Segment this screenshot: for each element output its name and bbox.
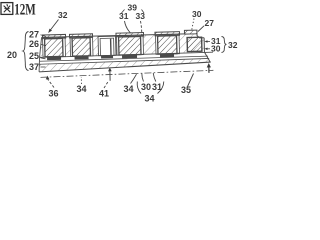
electrode box B4 (31/33) xyxy=(119,36,141,55)
leader 31 top xyxy=(125,21,131,33)
leader 30 bottom xyxy=(142,73,144,81)
slab left broken edge xyxy=(39,37,42,57)
leader 37 left xyxy=(41,66,46,68)
svg-text:32: 32 xyxy=(58,10,68,20)
slab top outline xyxy=(42,34,186,38)
leader 27 right xyxy=(198,26,204,32)
empty trench U3 inner liner xyxy=(100,38,114,56)
contact foot under B5 xyxy=(160,54,174,58)
trench cup liner under B1 xyxy=(43,37,66,57)
arrow right shaft xyxy=(208,65,210,73)
svg-text:37: 37 xyxy=(29,62,39,72)
leader 34 paren right xyxy=(158,82,164,94)
svg-text:31: 31 xyxy=(119,11,129,21)
leader 36 dashed xyxy=(48,79,55,88)
svg-text:34: 34 xyxy=(145,94,155,104)
leader 41 dashed xyxy=(104,81,109,88)
leader 30 top right dotted xyxy=(192,19,194,30)
svg-text:30: 30 xyxy=(141,82,151,92)
leader 26 left xyxy=(41,44,47,46)
svg-text:27: 27 xyxy=(29,30,39,40)
leader 32 top left xyxy=(50,20,59,31)
svg-text:26: 26 xyxy=(29,39,39,49)
leader 27 left xyxy=(41,35,47,37)
layer 25 boundary line xyxy=(40,52,213,57)
svg-text:34: 34 xyxy=(124,84,134,94)
svg-text:33: 33 xyxy=(136,11,146,21)
trench cup liner under B2 xyxy=(70,36,93,56)
leader 34 paren left xyxy=(137,82,141,94)
top bar over B4 xyxy=(116,33,144,37)
leader 33 top dashed xyxy=(141,21,142,35)
leader 34 center-left xyxy=(131,74,137,83)
figure title 図12M xyxy=(1,3,13,15)
tick 39 to 31 xyxy=(122,10,125,14)
leader 35 xyxy=(188,74,194,87)
svg-text:30: 30 xyxy=(211,44,221,54)
svg-text:34: 34 xyxy=(77,84,87,94)
svg-text:27: 27 xyxy=(205,18,215,28)
leader 31 right mid xyxy=(206,41,210,43)
leader 34 dotted xyxy=(80,77,82,84)
empty trench U3 right wall mark xyxy=(110,39,112,55)
right electrode box 30/31 (32) xyxy=(187,37,202,51)
layer 37/34 hatched band xyxy=(39,58,211,71)
arrow 41 head xyxy=(108,68,112,72)
svg-text:35: 35 xyxy=(181,85,191,95)
contact foot under B2 xyxy=(75,56,89,60)
right end top bar 31 xyxy=(184,30,197,34)
tick 39 to 33 xyxy=(142,10,145,14)
empty trench cup U3 xyxy=(98,36,116,56)
top bar over B5 xyxy=(155,32,180,36)
arrow 36 head xyxy=(46,76,50,80)
layer boundary line xyxy=(39,58,209,64)
electrode box B5 xyxy=(158,36,177,54)
chain center line xyxy=(40,70,213,77)
brace 32 right xyxy=(222,37,227,53)
contact foot under U3 xyxy=(101,55,113,58)
svg-text:30: 30 xyxy=(192,9,202,19)
leader 30 right mid xyxy=(206,48,210,50)
svg-text:25: 25 xyxy=(29,51,39,61)
arrow 41 shaft xyxy=(109,69,111,80)
svg-text:36: 36 xyxy=(49,89,59,99)
leader 31 bottom xyxy=(153,73,156,82)
contact foot under B1 xyxy=(47,56,61,60)
band bottom outline xyxy=(39,62,211,72)
leader 25 left xyxy=(41,58,46,59)
trench cup liner under B5 xyxy=(156,34,180,54)
top bar over B2 xyxy=(69,34,92,38)
leader 31 arrowhead xyxy=(205,40,208,43)
contact foot under B4 xyxy=(122,55,137,59)
leader 30 arrowhead xyxy=(205,48,208,51)
layer 27 slab hatched body xyxy=(40,33,204,57)
band left edge xyxy=(39,57,40,71)
svg-text:20: 20 xyxy=(7,50,17,60)
electrode box B1 (32) xyxy=(45,38,63,56)
svg-text:41: 41 xyxy=(99,89,109,99)
svg-text:12M: 12M xyxy=(14,1,36,18)
right step outline 27 xyxy=(197,30,204,38)
leader 32 arrowhead xyxy=(48,29,52,33)
top bar over B1 xyxy=(42,34,65,38)
layer 26 boundary line xyxy=(40,56,208,61)
svg-text:32: 32 xyxy=(228,40,238,50)
brace for 20 group xyxy=(23,32,29,71)
right outer edge xyxy=(204,38,210,63)
arrow right head xyxy=(207,63,211,68)
trench cup liner under B4 xyxy=(117,35,144,55)
electrode box B2 xyxy=(72,38,90,56)
